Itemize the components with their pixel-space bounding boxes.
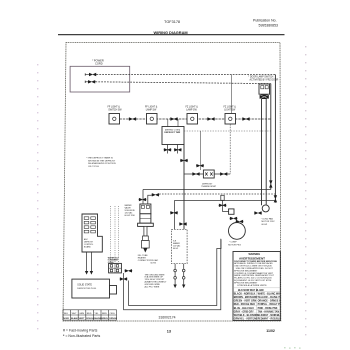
lamp circuit row wire	[120, 118, 271, 120]
left margin perforation dots	[37, 64, 38, 329]
icemaker pin wires	[174, 264, 176, 270]
terminal grid block	[109, 263, 122, 273]
svg-text:GRN: GRN	[79, 313, 84, 315]
svg-text:NOIR: NOIR	[63, 318, 69, 320]
wire W3 corner down to water valve	[142, 190, 144, 205]
svg-text:ORG: ORG	[110, 313, 115, 315]
svg-text:SOLID STATE: SOLID STATE	[77, 284, 92, 287]
defrost timer U1	[162, 127, 184, 145]
connector J1 on lamp row	[129, 117, 137, 120]
connector J2 on lamp row	[170, 117, 178, 120]
compressor motor M1	[229, 223, 246, 240]
wire W5 long horizontal	[174, 200, 275, 202]
svg-text:WHT: WHT	[72, 313, 78, 315]
fill tube heater body	[143, 236, 149, 241]
legend table cell text row 1	[64, 313, 115, 315]
legend table cell text row 2	[63, 317, 117, 320]
connector below overload	[230, 217, 238, 220]
elbow into overload	[222, 211, 228, 213]
fill tube heater ground arrow	[143, 248, 147, 253]
svg-text:60 HZ 15W: 60 HZ 15W	[125, 215, 135, 217]
svg-text:BOARD: BOARD	[84, 245, 91, 248]
connector right of thermostat	[220, 172, 228, 175]
wire from door switch left pin down	[261, 99, 263, 205]
fill tube stem	[144, 226, 147, 236]
svg-text:FZ LIGHT &: FZ LIGHT &	[224, 107, 237, 109]
icemaker plug pins arrows	[173, 285, 176, 289]
svg-text:VERT: VERT	[79, 318, 85, 320]
connector on timer pin left	[164, 148, 172, 151]
svg-text:60 HZ: 60 HZ	[173, 248, 179, 250]
svg-text:DE-ENERGIZED POSITION: DE-ENERGIZED POSITION	[88, 163, 116, 165]
svg-text:GRAY - GRIS GRY: GRAY - GRIS GRY	[234, 310, 254, 313]
connector on compressor feed	[219, 204, 227, 207]
wire W5 corner down to icemaker	[173, 201, 175, 230]
door lamp switch SW5	[259, 84, 270, 94]
wire right vertical V1 from W1	[274, 75, 276, 202]
svg-text:ALL PN # WIRE: ALL PN # WIRE	[145, 285, 160, 288]
ADC pin right	[90, 252, 92, 271]
wire W3 long horizontal	[143, 189, 271, 191]
svg-text:5995380853: 5995380853	[259, 23, 279, 27]
svg-text:LIGHT SW: LIGHT SW	[224, 109, 236, 111]
svg-text:FF LIGHT &: FF LIGHT &	[145, 107, 158, 109]
connector on V1	[274, 195, 277, 203]
svg-text:BLK: BLK	[64, 313, 69, 315]
svg-text:FF LIGHT &: FF LIGHT &	[108, 107, 121, 109]
svg-text:LAMP SW: LAMP SW	[186, 108, 197, 111]
svg-text:LAMP SW: LAMP SW	[146, 108, 157, 111]
bottom edge scan speckles	[284, 347, 301, 349]
door lamp switch plug connector (hatched)	[260, 95, 269, 99]
warning box wire table	[233, 288, 280, 321]
connector below grid	[120, 277, 128, 280]
svg-text:* DOOR LAMP SWITCH: * DOOR LAMP SWITCH	[248, 76, 273, 79]
svg-text:BLK/WHT - NOIR/BLC: BLK/WHT - NOIR/BLC	[258, 315, 282, 317]
overload protector OL1	[229, 209, 234, 214]
wire W4 long dashed horizontal	[159, 193, 275, 195]
ground loop wire L1	[124, 239, 221, 310]
svg-text:AVERTISSEMENT: AVERTISSEMENT	[239, 256, 265, 260]
connector left of thermostat	[192, 172, 200, 175]
ADC pin left	[86, 252, 88, 271]
warning box frame	[233, 252, 280, 321]
wire right vertical V2 from W2	[270, 84, 272, 190]
warning box body text	[234, 261, 277, 287]
svg-text:RED: RED	[87, 313, 92, 315]
connector on V184 upper	[180, 159, 188, 162]
defrost thermostat TH1	[203, 170, 214, 178]
water valve flange	[138, 223, 154, 226]
connector on water valve left feed	[139, 198, 147, 201]
svg-text:CONNECTOR: CONNECTOR	[138, 260, 151, 262]
run capacitor bridge component	[221, 195, 224, 200]
light switch SW3	[187, 114, 198, 125]
svg-text:60 HZ: 60 HZ	[151, 262, 157, 264]
connector on V184 lower	[179, 222, 187, 225]
adaptive defrost control block	[82, 214, 102, 252]
wire W1 line terminal tick	[84, 73, 86, 75]
light switch SW1	[109, 114, 120, 125]
connector on wire W4 left end	[152, 193, 160, 196]
title underline rule	[58, 34, 285, 36]
svg-text:* THE DEFROST TIMER IS: * THE DEFROST TIMER IS	[86, 158, 113, 160]
svg-text:* COMP: * COMP	[229, 242, 237, 244]
svg-text:DEFROST TMR: DEFROST TMR	[164, 132, 180, 134]
svg-text:WHT/BLK - BLC/NOIR: WHT/BLK - BLC/NOIR	[234, 315, 258, 317]
connector above thermostat	[196, 164, 204, 167]
solid state box tab	[110, 286, 117, 295]
ground loop wire L2	[129, 239, 221, 305]
svg-text:316002174: 316002174	[159, 316, 176, 320]
svg-text:Publication No.: Publication No.	[253, 18, 277, 22]
light switch SW2	[147, 114, 158, 125]
svg-text:DEFROST: DEFROST	[202, 183, 213, 185]
main diagram border frame	[63, 43, 281, 322]
connector at compressor terminal	[236, 220, 244, 223]
svg-text:RED - ROUGE RED: RED - ROUGE RED	[234, 304, 255, 306]
svg-text:SHOWN IN THE DEFROST: SHOWN IN THE DEFROST	[88, 160, 116, 162]
svg-text:* = Non-Illustrated Parts: * = Non-Illustrated Parts	[63, 334, 101, 338]
icemaker dashed box	[171, 229, 187, 263]
svg-text:BROWN - BRUN BRN: BROWN - BRUN BRN	[234, 297, 258, 299]
connector J4 on lamp row	[242, 117, 250, 120]
connector J3 on lamp row	[207, 117, 215, 120]
svg-text:TAN - HAVANE TAN: TAN - HAVANE TAN	[258, 310, 280, 313]
dashed wire from timer to right bundle	[184, 130, 271, 132]
vertical wire V184 timer to icemaker	[183, 145, 185, 230]
svg-text:BRUN: BRUN	[101, 318, 108, 320]
connector on V2	[269, 180, 272, 188]
wire from door switch right pin down	[265, 99, 267, 205]
timer pin stub left	[167, 145, 169, 154]
svg-text:FZ LIGHT &: FZ LIGHT &	[186, 107, 199, 109]
connector right of grid	[124, 269, 132, 272]
timer pin stub right	[177, 145, 179, 154]
svg-text:PURPLE - VIOLET PUR: PURPLE - VIOLET PUR	[258, 304, 284, 306]
svg-text:SWITCH SW: SWITCH SW	[108, 109, 122, 111]
water valve coil body	[140, 214, 151, 223]
svg-text:OF CYCLE: OF CYCLE	[88, 166, 99, 168]
svg-text:PINK - ROSE PNK: PINK - ROSE PNK	[258, 308, 278, 310]
connector at fan motor	[254, 211, 262, 214]
svg-text:WHITE - BLANC WHT: WHITE - BLANC WHT	[258, 292, 282, 295]
connector on wire W2	[88, 80, 96, 83]
svg-text:13: 13	[167, 330, 171, 334]
svg-text:TGF3178: TGF3178	[164, 20, 180, 24]
connector on timer pin right	[174, 148, 182, 151]
icemaker plug terminals	[174, 269, 177, 272]
svg-text:CORD: CORD	[95, 61, 103, 65]
svg-text:MOTOR 115V: MOTOR 115V	[262, 221, 276, 223]
svg-text:BLUE - BLEU BLU: BLUE - BLEU BLU	[234, 308, 254, 310]
light switch SW4	[225, 114, 236, 125]
svg-text:ETRE MIS A LA TERRE VERTE: ETRE MIS A LA TERRE VERTE	[238, 284, 268, 287]
svg-text:60 HZ: 60 HZ	[262, 224, 268, 226]
vertical stub above thermostat	[200, 131, 202, 170]
svg-text:ACTIVATED BY FRZ DOOR: ACTIVATED BY FRZ DOOR	[250, 79, 279, 82]
connector on wire W1	[89, 73, 97, 76]
condenser fan motor M2	[262, 205, 269, 212]
power cord terminal box	[70, 66, 130, 92]
right margin perforation dots	[305, 46, 306, 335]
svg-text:(BEHIND CONS): (BEHIND CONS)	[165, 129, 181, 131]
dashed harness wires to terminal grid	[110, 206, 112, 263]
wire W2 line terminal tick	[84, 81, 86, 83]
vertical wire from SW4 down to thermostat circuit	[229, 124, 231, 174]
wire W1 (line 1 to right side)	[96, 74, 275, 76]
svg-text:BLK NOIR WHT BLANC: BLK NOIR WHT BLANC	[238, 289, 264, 292]
svg-text:BLACK - NOIR BLK: BLACK - NOIR BLK	[234, 292, 256, 295]
wire color legend table	[63, 310, 117, 320]
svg-text:# = Fast-moving Parts: # = Fast-moving Parts	[63, 329, 98, 333]
solid state defrost control box	[72, 279, 110, 298]
defrost thermostat wire	[184, 173, 230, 175]
svg-text:MOTOR PKG: MOTOR PKG	[228, 244, 241, 246]
svg-text:11/02: 11/02	[266, 329, 275, 333]
svg-text:THERMOSTAT: THERMOSTAT	[201, 185, 216, 188]
svg-text:YELLOW - JAUNE YEL: YELLOW - JAUNE YEL	[258, 296, 284, 299]
svg-text:GREEN - VERT GRN: GREEN - VERT GRN	[234, 301, 257, 303]
water valve right feed	[148, 195, 152, 204]
node from W1 down to freezer light	[230, 75, 232, 114]
wire W2 (line 2 to right side)	[95, 82, 270, 84]
water valve solenoid V1	[140, 204, 151, 214]
svg-text:ORNGE: ORNGE	[109, 318, 118, 320]
connector on W5 drop	[170, 211, 178, 214]
wire compressor feed down	[221, 201, 223, 212]
stubs from lamp row into defrost timer	[167, 119, 169, 127]
svg-text:* COND FAN: * COND FAN	[261, 217, 274, 220]
svg-text:BRN: BRN	[102, 313, 107, 315]
svg-text:DEFROST BD PLUG: DEFROST BD PLUG	[77, 288, 96, 290]
